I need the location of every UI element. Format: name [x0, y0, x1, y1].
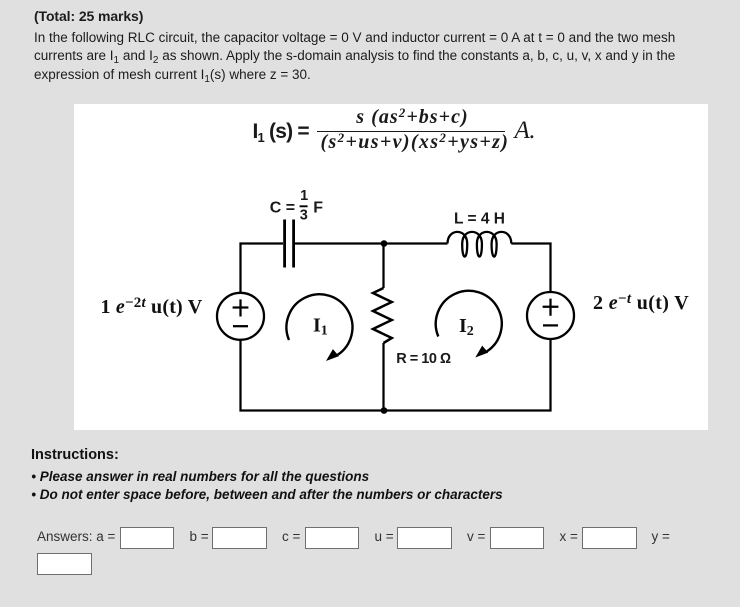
svg-text:1: 1: [300, 188, 308, 204]
svg-text:F: F: [313, 199, 323, 216]
heading total marks: [34, 8, 143, 24]
mesh current I2 arrow arc: [436, 291, 502, 352]
wire inductor to top-right corner and down to right source: [511, 244, 550, 292]
instructions heading: [31, 447, 119, 463]
wire top node down to resistor: [382, 244, 384, 289]
wire V1 bottom to bottom-left corner: [241, 340, 385, 411]
svg-text:I1: I1: [313, 315, 328, 339]
wrapped y input box: [37, 553, 92, 575]
mesh current I1 arrowhead: [326, 349, 339, 361]
answers row: [37, 529, 115, 544]
wire capacitor to top node: [295, 242, 384, 244]
V2 plus sign: [543, 299, 559, 316]
V2 minus sign: [543, 324, 558, 326]
svg-text:R = 10 Ω: R = 10 Ω: [396, 351, 451, 367]
wire top-left horizontal (source top to capacitor): [241, 244, 284, 293]
node dot top: [381, 240, 388, 247]
svg-text:1 e−2t u(t) V: 1 e−2t u(t) V: [101, 295, 203, 318]
formula fraction bar: [317, 131, 505, 133]
mesh current I1 arrow arc: [286, 294, 352, 355]
svg-text:C =: C =: [270, 199, 295, 216]
question paragraph: [34, 29, 675, 86]
label C fraction bar: [300, 205, 308, 207]
instruction bullet 2: [31, 487, 502, 502]
V1 minus sign: [233, 325, 248, 327]
inductor L coil: [448, 232, 512, 257]
resistor R zigzag: [373, 288, 392, 343]
formula numerator: [319, 106, 507, 129]
node dot bottom: [381, 407, 388, 414]
svg-text:I2: I2: [459, 315, 474, 339]
svg-text:2 e−t u(t) V: 2 e−t u(t) V: [593, 291, 689, 314]
svg-text:3: 3: [300, 208, 308, 224]
instruction bullet 1: [31, 469, 369, 484]
wire top node to inductor: [384, 242, 448, 244]
mesh current I2 arrowhead: [475, 346, 488, 358]
formula denominator: [321, 131, 509, 154]
formula unit A.: [515, 117, 535, 145]
wire resistor to bottom node: [382, 343, 384, 411]
white figure panel: [74, 104, 708, 430]
voltage source V1 circle: [217, 293, 264, 340]
svg-text:L = 4 H: L = 4 H: [454, 211, 505, 228]
V1 plus sign: [233, 299, 249, 316]
voltage source V2 circle: [527, 292, 574, 339]
wire bottom node to bottom-right corner up to V2: [384, 339, 551, 411]
formula I1(s) lhs: [253, 120, 309, 144]
capacitor C plates: [285, 220, 294, 268]
